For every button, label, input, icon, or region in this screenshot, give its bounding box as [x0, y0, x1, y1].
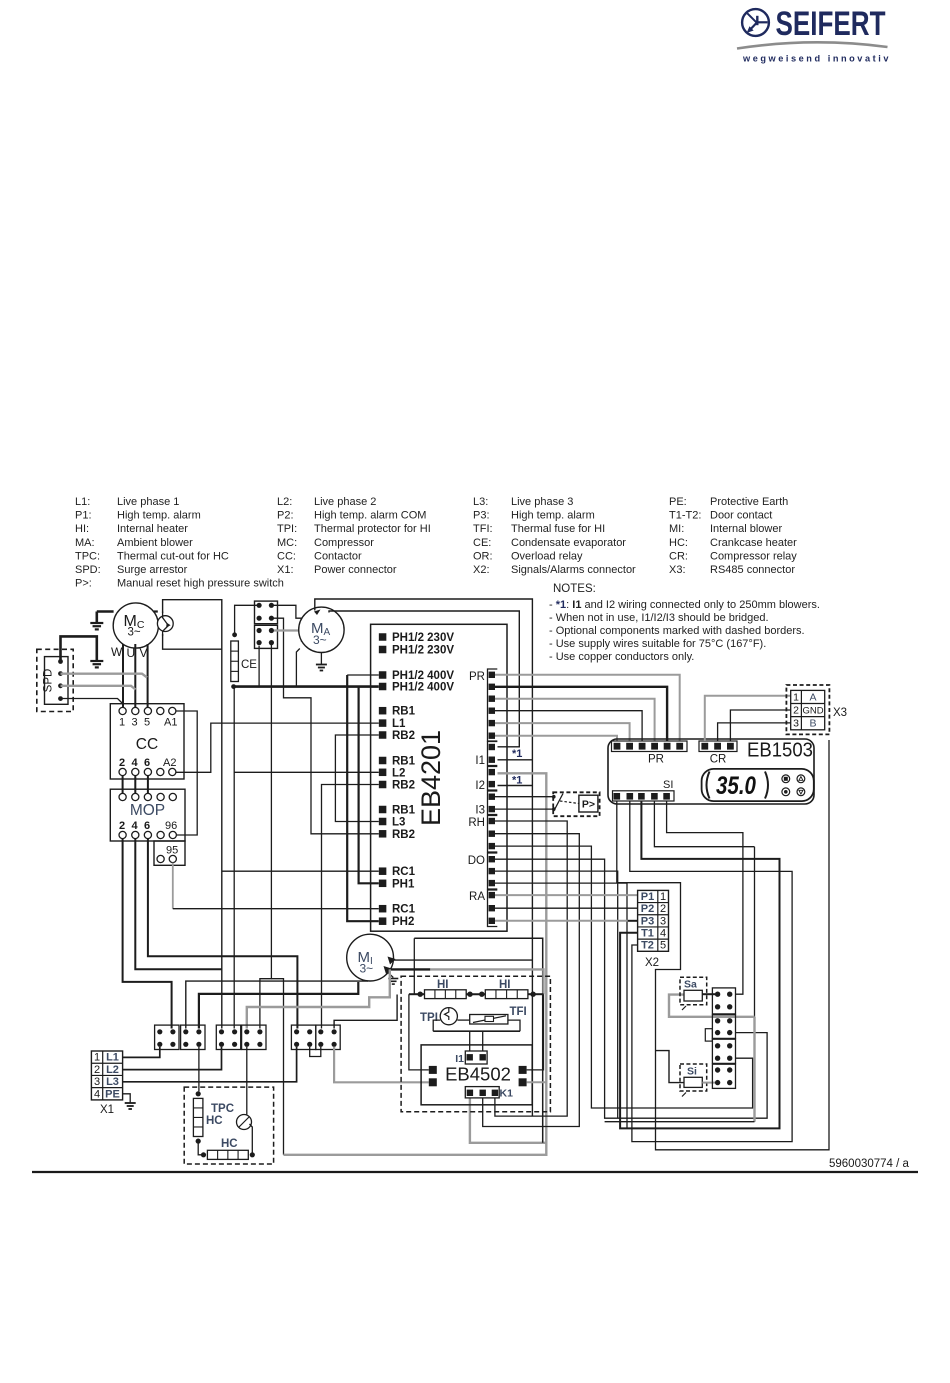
svg-text:Manual reset high pressure swi: Manual reset high pressure switch — [117, 578, 284, 590]
svg-text:W: W — [111, 645, 123, 659]
svg-text:NOTES:: NOTES: — [553, 583, 596, 595]
svg-text:RB1: RB1 — [392, 805, 416, 817]
svg-text:I3: I3 — [475, 805, 485, 817]
svg-text:PR: PR — [469, 671, 485, 683]
svg-text:L2: L2 — [392, 767, 405, 779]
svg-text:X1:: X1: — [277, 564, 294, 576]
svg-text:- Optional components marked w: - Optional components marked with dashed… — [549, 625, 805, 637]
svg-text:TFI: TFI — [510, 1006, 527, 1018]
svg-text:Power connector: Power connector — [314, 564, 397, 576]
svg-text:1: 1 — [94, 1052, 100, 1064]
svg-text:2: 2 — [660, 903, 666, 915]
svg-text:X3:: X3: — [669, 564, 686, 576]
svg-text:HI: HI — [437, 979, 449, 991]
svg-text:- When not in use, I1/I2/I3 sh: - When not in use, I1/I2/I3 should be br… — [549, 612, 769, 624]
svg-text:EB4201: EB4201 — [416, 730, 446, 826]
svg-text:P>: P> — [582, 799, 595, 811]
svg-text:RC1: RC1 — [392, 904, 416, 916]
svg-text:3: 3 — [94, 1076, 100, 1088]
svg-text:Compressor: Compressor — [314, 537, 374, 549]
svg-text:5: 5 — [144, 717, 150, 729]
svg-text:Protective Earth: Protective Earth — [710, 496, 788, 508]
svg-text:2: 2 — [94, 1064, 100, 1076]
svg-text:V: V — [140, 646, 148, 660]
svg-text:MI:: MI: — [669, 523, 684, 535]
svg-text:L3: L3 — [392, 817, 405, 829]
svg-text:T1-T2:: T1-T2: — [669, 510, 701, 522]
svg-text:RC1: RC1 — [392, 866, 416, 878]
svg-text:4: 4 — [94, 1088, 100, 1100]
svg-text:RS485 connector: RS485 connector — [710, 564, 795, 576]
svg-text:- *1: I1 and I2 wiring connect: - *1: I1 and I2 wiring connected only to… — [549, 599, 820, 611]
svg-text:PE:: PE: — [669, 496, 687, 508]
svg-text:Contactor: Contactor — [314, 550, 362, 562]
svg-text:95: 95 — [166, 845, 178, 857]
svg-text:3: 3 — [132, 717, 138, 729]
svg-text:Sa: Sa — [684, 979, 697, 991]
svg-text:EB4502: EB4502 — [445, 1064, 511, 1085]
svg-text:PH1/2 230V: PH1/2 230V — [392, 632, 454, 644]
svg-text:PH1/2 400V: PH1/2 400V — [392, 670, 454, 682]
svg-text:2: 2 — [119, 820, 125, 832]
svg-text:CR:: CR: — [669, 550, 688, 562]
svg-text:P2:: P2: — [277, 510, 294, 522]
svg-text:- Use copper conductors only.: - Use copper conductors only. — [549, 651, 694, 663]
svg-text:HI: HI — [499, 979, 511, 991]
svg-text:1: 1 — [119, 717, 125, 729]
svg-text:Thermal fuse for HI: Thermal fuse for HI — [511, 523, 605, 535]
svg-text:High temp. alarm: High temp. alarm — [117, 510, 201, 522]
svg-text:1: 1 — [793, 692, 799, 704]
svg-text:X3: X3 — [833, 707, 847, 719]
svg-text:HC: HC — [206, 1115, 223, 1127]
svg-text:P1:: P1: — [75, 510, 92, 522]
svg-text:6: 6 — [144, 757, 150, 769]
svg-text:RB1: RB1 — [392, 706, 416, 718]
svg-text:U: U — [127, 646, 136, 660]
svg-text:Ambient blower: Ambient blower — [117, 537, 193, 549]
svg-text:5960030774 / a: 5960030774 / a — [829, 1158, 910, 1170]
svg-text:TPC: TPC — [211, 1103, 234, 1115]
svg-text:CC: CC — [136, 736, 158, 753]
svg-text:PH2: PH2 — [392, 916, 414, 928]
svg-text:4: 4 — [132, 757, 139, 769]
svg-text:CE:: CE: — [473, 537, 491, 549]
svg-text:PH1: PH1 — [392, 878, 415, 890]
svg-text:Compressor relay: Compressor relay — [710, 550, 797, 562]
svg-text:EB1503: EB1503 — [747, 739, 813, 762]
svg-text:P3:: P3: — [473, 510, 490, 522]
svg-text:HI:: HI: — [75, 523, 89, 535]
svg-text:RB2: RB2 — [392, 730, 415, 742]
svg-text:PH1/2 230V: PH1/2 230V — [392, 645, 454, 657]
svg-text:RB2: RB2 — [392, 829, 415, 841]
svg-text:4: 4 — [660, 928, 666, 940]
svg-text:3: 3 — [660, 915, 666, 927]
svg-text:Thermal protector for HI: Thermal protector for HI — [314, 523, 431, 535]
svg-text:Door contact: Door contact — [710, 510, 772, 522]
svg-text:L1: L1 — [106, 1052, 119, 1064]
svg-text:*1: *1 — [512, 775, 522, 787]
svg-text:A: A — [809, 692, 816, 704]
svg-text:P3: P3 — [641, 915, 654, 927]
svg-text:L2: L2 — [106, 1064, 119, 1076]
svg-text:wegweisend innovativ: wegweisend innovativ — [742, 54, 891, 64]
svg-text:X1: X1 — [100, 1104, 114, 1116]
svg-text:B: B — [809, 718, 816, 730]
svg-text:SI: SI — [663, 779, 673, 791]
svg-text:I2: I2 — [475, 780, 485, 792]
svg-text:MA:: MA: — [75, 537, 95, 549]
svg-text:3~: 3~ — [360, 962, 374, 976]
svg-text:DO: DO — [468, 855, 485, 867]
svg-text:Si: Si — [687, 1066, 697, 1078]
svg-text:Internal blower: Internal blower — [710, 523, 782, 535]
svg-text:RB2: RB2 — [392, 780, 415, 792]
svg-text:X2: X2 — [645, 957, 659, 969]
svg-text:MC:: MC: — [277, 537, 297, 549]
svg-text:Live phase 3: Live phase 3 — [511, 496, 573, 508]
svg-text:High temp. alarm COM: High temp. alarm COM — [314, 510, 426, 522]
svg-text:T2: T2 — [641, 940, 654, 952]
svg-text:A1: A1 — [164, 717, 177, 729]
svg-text:4: 4 — [132, 820, 139, 832]
svg-text:L1:: L1: — [75, 496, 90, 508]
svg-text:MOP: MOP — [130, 802, 165, 819]
svg-text:PH1/2 400V: PH1/2 400V — [392, 682, 454, 694]
svg-text:Internal heater: Internal heater — [117, 523, 188, 535]
svg-text:96: 96 — [165, 820, 177, 832]
svg-text:P2: P2 — [641, 903, 654, 915]
svg-text:CC:: CC: — [277, 550, 296, 562]
svg-text:Live phase 2: Live phase 2 — [314, 496, 376, 508]
svg-text:SEIFERT: SEIFERT — [776, 5, 886, 43]
svg-text:TPC:: TPC: — [75, 550, 100, 562]
svg-text:2: 2 — [793, 705, 799, 717]
svg-text:HC:: HC: — [669, 537, 688, 549]
svg-text:High temp. alarm: High temp. alarm — [511, 510, 595, 522]
svg-text:TPI:: TPI: — [277, 523, 297, 535]
svg-text:PE: PE — [105, 1088, 120, 1100]
svg-text:T1: T1 — [641, 928, 654, 940]
svg-text:HC: HC — [221, 1138, 238, 1150]
svg-text:1: 1 — [660, 891, 666, 903]
svg-text:P1: P1 — [641, 891, 654, 903]
svg-text:I1: I1 — [475, 755, 485, 767]
svg-text:A2: A2 — [163, 757, 176, 769]
svg-text:2: 2 — [119, 757, 125, 769]
svg-text:K1: K1 — [500, 1088, 514, 1100]
svg-text:*1: *1 — [512, 748, 522, 760]
svg-text:RA: RA — [469, 891, 485, 903]
svg-text:TFI:: TFI: — [473, 523, 493, 535]
svg-text:TPI: TPI — [420, 1012, 438, 1024]
svg-text:Crankcase heater: Crankcase heater — [710, 537, 797, 549]
svg-text:Surge arrestor: Surge arrestor — [117, 564, 188, 576]
svg-text:RB1: RB1 — [392, 756, 416, 768]
svg-text:P>:: P>: — [75, 578, 92, 590]
svg-text:PR: PR — [648, 754, 664, 766]
svg-text:5: 5 — [660, 940, 666, 952]
svg-text:Live phase 1: Live phase 1 — [117, 496, 179, 508]
svg-text:Condensate evaporator: Condensate evaporator — [511, 537, 626, 549]
svg-text:L1: L1 — [392, 718, 406, 730]
svg-text:L2:: L2: — [277, 496, 292, 508]
svg-text:Signals/Alarms connector: Signals/Alarms connector — [511, 564, 636, 576]
svg-text:OR:: OR: — [473, 550, 493, 562]
svg-text:- Use supply wires suitable fo: - Use supply wires suitable for 75°C (16… — [549, 638, 766, 650]
svg-text:Overload relay: Overload relay — [511, 550, 583, 562]
svg-text:L3:: L3: — [473, 496, 488, 508]
svg-text:3~: 3~ — [128, 627, 141, 639]
svg-text:L3: L3 — [106, 1076, 119, 1088]
svg-text:SPD:: SPD: — [75, 564, 101, 576]
svg-text:SPD: SPD — [43, 669, 55, 693]
svg-text:RH: RH — [468, 817, 485, 829]
svg-text:35.0: 35.0 — [716, 772, 756, 800]
svg-text:X2:: X2: — [473, 564, 490, 576]
svg-text:CE: CE — [241, 659, 257, 671]
svg-text:6: 6 — [144, 820, 150, 832]
svg-text:GND: GND — [802, 706, 823, 717]
svg-text:Thermal cut-out for HC: Thermal cut-out for HC — [117, 550, 229, 562]
svg-text:3~: 3~ — [313, 633, 327, 647]
svg-text:CR: CR — [710, 754, 727, 766]
svg-text:3: 3 — [793, 718, 799, 730]
